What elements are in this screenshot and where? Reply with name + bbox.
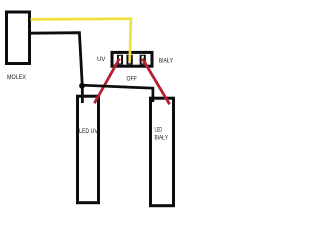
LED bar LED BIALY — [151, 98, 174, 206]
svg-text:BIAŁY: BIAŁY — [159, 58, 174, 64]
junction node A — [79, 83, 85, 89]
svg-text:UV: UV — [97, 57, 106, 63]
LED bar LED UV — [78, 96, 99, 203]
wire red: switch pin1 to LED UV — [94, 59, 119, 104]
switch S1 pin 2 (common) — [127, 55, 133, 65]
connector J1 MOLEX — [7, 12, 30, 64]
wire yellow: MOLEX to switch pin 2 — [31, 19, 131, 62]
svg-text:LED: LED — [155, 128, 163, 134]
svg-text:MOLEX: MOLEX — [7, 74, 27, 81]
switch S1 pin 3 (BIALY) — [140, 55, 146, 65]
wire black: node A to LED BIALY — [82, 85, 153, 102]
svg-text:BIAŁY: BIAŁY — [155, 135, 169, 141]
wire red: switch pin3 to LED BIALY — [142, 59, 169, 105]
wire black: MOLEX to node A — [30, 33, 82, 103]
svg-text:OFF: OFF — [127, 76, 138, 83]
switch S1 pin 1 (UV) — [117, 55, 123, 65]
switch S1 body — [112, 52, 152, 66]
svg-text:LED UV: LED UV — [79, 129, 98, 135]
